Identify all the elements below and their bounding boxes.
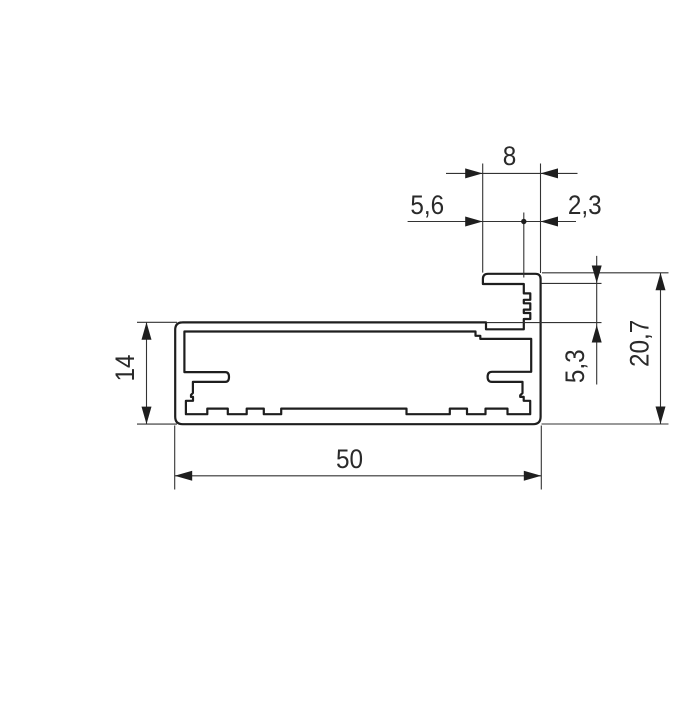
50 right extension line bbox=[540, 426, 542, 490]
5,6 arrow (points right) bbox=[465, 217, 483, 227]
14 top arrow (points up) bbox=[142, 322, 152, 340]
50 dimension line bbox=[175, 475, 542, 477]
8 dim right arrow (points left) bbox=[541, 168, 559, 178]
2,3 arrow (points left) bbox=[541, 217, 559, 227]
8 dimension line bbox=[446, 172, 578, 174]
profile inner cavity bbox=[184, 332, 531, 415]
14 dimension vertical line bbox=[146, 322, 148, 424]
50 right arrow (points right) bbox=[524, 471, 542, 481]
svg-text:50: 50 bbox=[336, 445, 363, 474]
8 dim left arrow (points right) bbox=[465, 168, 483, 178]
20,7 top arrow (points up) bbox=[656, 273, 666, 291]
50 left extension line bbox=[174, 426, 176, 490]
50 left arrow (points left) bbox=[175, 471, 193, 481]
profile outer contour with glazing flange bbox=[175, 274, 540, 424]
14 top extension line bbox=[137, 321, 177, 323]
14 bottom arrow (points down) bbox=[142, 407, 152, 425]
20,7 dimension vertical line bbox=[660, 273, 662, 424]
20,7 bottom extension line bbox=[542, 423, 669, 425]
svg-text:20,7: 20,7 bbox=[625, 320, 654, 367]
svg-text:5,6: 5,6 bbox=[410, 191, 444, 220]
5,3 lower arrow (points up) bbox=[592, 325, 602, 343]
5,3 bottom extension line bbox=[487, 322, 602, 324]
14 bottom extension line bbox=[137, 423, 177, 425]
split dot on 5,6/2,3 line bbox=[521, 219, 526, 224]
svg-text:14: 14 bbox=[111, 354, 140, 381]
arrowheads bbox=[142, 168, 666, 480]
5,6 / 2,3 dimension line bbox=[408, 221, 576, 223]
thin dimension / extension lines bbox=[137, 164, 669, 490]
svg-text:5,3: 5,3 bbox=[561, 349, 590, 383]
svg-text:2,3: 2,3 bbox=[568, 191, 602, 220]
20,7 top extension line bbox=[542, 272, 669, 274]
5,3 top extension line bbox=[542, 282, 602, 284]
20,7 bottom arrow (points down) bbox=[656, 407, 666, 425]
5,3 upper arrow (points down) bbox=[592, 266, 602, 284]
extension line left of 8 dim bbox=[482, 164, 484, 273]
extension line at 5,6 / 2,3 split bbox=[523, 213, 525, 278]
svg-text:8: 8 bbox=[503, 142, 517, 171]
extension line right of 8 dim bbox=[540, 164, 542, 274]
5,3 dimension vertical line bbox=[596, 256, 598, 385]
